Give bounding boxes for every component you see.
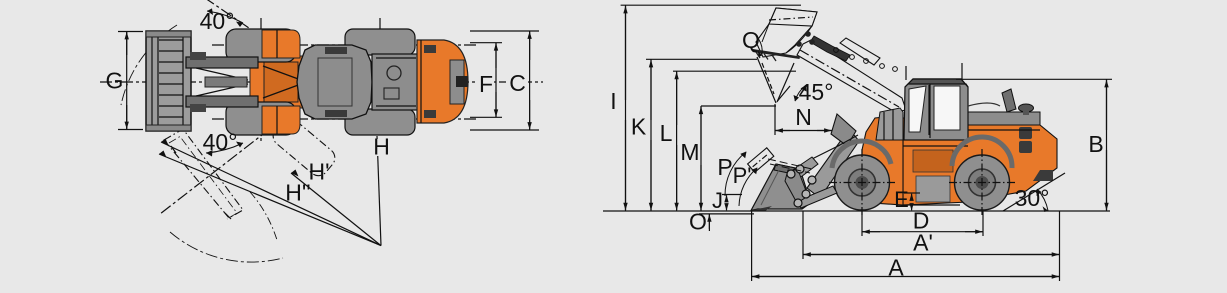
svg-text:O: O [689,209,707,235]
svg-text:P': P' [733,163,752,188]
svg-text:40°: 40° [203,129,238,155]
svg-text:H'': H'' [285,180,310,206]
svg-text:A: A [888,255,904,281]
svg-text:E: E [894,187,909,212]
svg-text:H: H [373,134,390,160]
svg-text:K: K [631,114,647,140]
svg-text:M: M [680,139,699,165]
svg-text:J: J [712,188,723,213]
svg-text:L: L [660,120,673,146]
svg-text:H': H' [308,159,329,185]
svg-text:A': A' [913,230,933,256]
svg-text:B: B [1088,131,1103,157]
svg-text:I: I [610,88,616,114]
svg-text:Q: Q [742,27,760,53]
svg-text:30°: 30° [1015,185,1050,211]
svg-text:N: N [795,104,812,130]
svg-text:45°: 45° [799,79,834,105]
svg-text:40°: 40° [200,8,235,34]
svg-text:P: P [717,154,732,180]
svg-text:C: C [509,70,526,96]
svg-text:G: G [106,68,124,94]
svg-text:F: F [479,71,493,97]
